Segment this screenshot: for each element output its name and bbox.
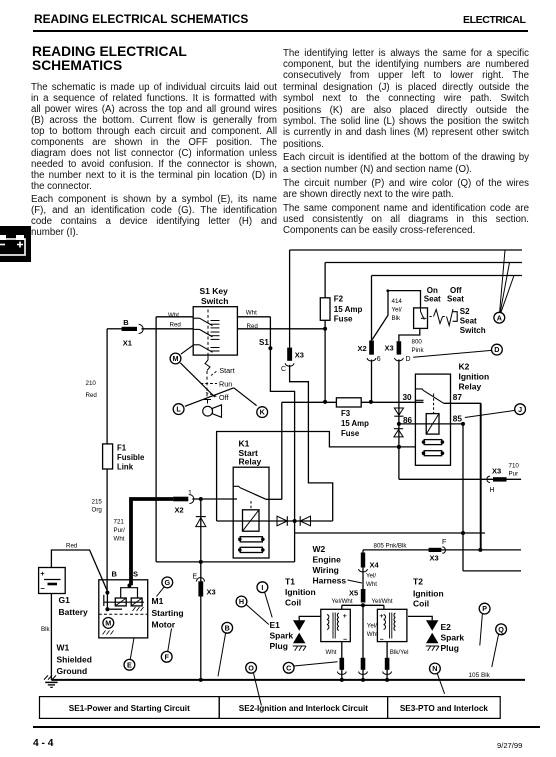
svg-text:Yel/Wht: Yel/Wht — [332, 598, 353, 605]
svg-text:M1: M1 — [152, 596, 164, 606]
svg-text:Link: Link — [117, 463, 134, 472]
svg-text:210: 210 — [86, 380, 97, 387]
svg-text:Switch: Switch — [201, 296, 228, 306]
svg-text:Wht: Wht — [168, 312, 179, 319]
svg-text:−: − — [343, 637, 347, 644]
svg-text:X3: X3 — [295, 351, 304, 360]
svg-text:Ground: Ground — [57, 666, 88, 676]
svg-text:S: S — [133, 570, 138, 579]
svg-text:Spark: Spark — [270, 631, 294, 641]
svg-text:F1: F1 — [117, 444, 127, 453]
svg-text:721: 721 — [114, 519, 125, 526]
svg-text:F2: F2 — [334, 295, 344, 304]
svg-text:Pur/: Pur/ — [114, 527, 126, 534]
svg-text:Seat: Seat — [447, 294, 464, 303]
svg-text:I: I — [261, 583, 263, 592]
svg-text:X2: X2 — [175, 506, 184, 515]
svg-text:E1: E1 — [270, 620, 281, 630]
svg-text:Wht: Wht — [326, 649, 337, 656]
svg-text:SE2-Ignition and Interlock Cir: SE2-Ignition and Interlock Circuit — [239, 704, 368, 713]
svg-text:Ignition: Ignition — [285, 587, 316, 597]
svg-text:F: F — [165, 652, 170, 661]
svg-text:F: F — [442, 539, 446, 546]
svg-text:W2: W2 — [313, 544, 326, 554]
svg-text:Blk: Blk — [41, 626, 51, 633]
svg-text:SE3-PTO and Interlock: SE3-PTO and Interlock — [400, 704, 489, 713]
svg-text:Red: Red — [170, 322, 182, 329]
svg-text:+: + — [343, 613, 347, 620]
svg-text:D: D — [494, 345, 499, 354]
svg-text:X3: X3 — [430, 554, 439, 563]
svg-text:X4: X4 — [370, 561, 380, 570]
svg-text:Harness: Harness — [313, 576, 347, 586]
svg-text:Plug: Plug — [270, 641, 288, 651]
svg-text:T2: T2 — [413, 577, 423, 587]
svg-text:Org: Org — [92, 507, 103, 514]
svg-text:K1: K1 — [239, 438, 250, 448]
svg-text:215: 215 — [92, 499, 103, 506]
svg-text:K2: K2 — [459, 362, 470, 372]
svg-text:Red: Red — [86, 392, 98, 399]
svg-text:Blk: Blk — [392, 315, 402, 322]
svg-text:−: − — [41, 584, 46, 593]
svg-text:G: G — [165, 578, 171, 587]
svg-text:A: A — [497, 313, 502, 322]
svg-text:M: M — [105, 619, 111, 628]
svg-text:T1: T1 — [285, 576, 295, 586]
svg-text:J: J — [518, 405, 522, 414]
svg-text:Plug: Plug — [441, 643, 459, 653]
svg-text:Engine: Engine — [313, 555, 342, 565]
svg-text:H: H — [239, 597, 244, 606]
svg-text:105 Blk: 105 Blk — [469, 672, 491, 679]
svg-text:Fuse: Fuse — [341, 429, 360, 438]
svg-text:Q: Q — [498, 625, 504, 634]
svg-text:Wht: Wht — [246, 309, 257, 316]
svg-text:30: 30 — [403, 393, 413, 402]
svg-text:Wiring: Wiring — [313, 565, 339, 575]
svg-text:E2: E2 — [441, 622, 452, 632]
svg-text:D: D — [406, 356, 411, 363]
svg-text:Yel/: Yel/ — [392, 307, 402, 314]
svg-text:K: K — [260, 408, 266, 417]
svg-text:Relay: Relay — [459, 382, 482, 392]
svg-text:G1: G1 — [59, 595, 71, 605]
svg-text:Pur: Pur — [509, 470, 519, 477]
svg-text:15 Amp: 15 Amp — [341, 419, 369, 428]
svg-text:SE1-Power and Starting Circuit: SE1-Power and Starting Circuit — [69, 704, 190, 713]
svg-text:X2: X2 — [358, 344, 367, 353]
svg-text:Yel/Wht: Yel/Wht — [372, 598, 393, 605]
svg-text:X3: X3 — [492, 466, 501, 475]
svg-text:E: E — [127, 660, 132, 669]
svg-text:Seat: Seat — [460, 316, 477, 325]
svg-text:X3: X3 — [385, 344, 394, 353]
svg-text:X5: X5 — [349, 588, 358, 597]
svg-text:Ignition: Ignition — [413, 588, 444, 598]
svg-text:H: H — [490, 487, 495, 494]
svg-text:Yel/: Yel/ — [366, 572, 376, 579]
svg-text:S2: S2 — [460, 307, 470, 316]
svg-text:Yel/: Yel/ — [367, 623, 377, 630]
svg-text:85: 85 — [453, 415, 463, 424]
svg-text:Coil: Coil — [413, 599, 429, 609]
svg-text:N: N — [432, 664, 437, 673]
svg-text:Wht: Wht — [114, 536, 125, 543]
svg-text:Relay: Relay — [239, 457, 262, 467]
svg-text:+: + — [379, 613, 383, 620]
svg-text:414: 414 — [392, 298, 403, 305]
svg-text:1: 1 — [188, 490, 192, 497]
svg-text:15 Amp: 15 Amp — [334, 305, 363, 314]
svg-text:X3: X3 — [207, 588, 216, 597]
svg-text:C: C — [281, 366, 286, 373]
svg-text:L: L — [176, 405, 181, 414]
svg-text:Fusible: Fusible — [117, 453, 145, 462]
svg-text:Ignition: Ignition — [459, 372, 490, 382]
svg-text:C: C — [286, 663, 291, 672]
svg-text:Seat: Seat — [424, 294, 441, 303]
svg-text:B: B — [123, 318, 129, 327]
svg-text:B: B — [225, 623, 230, 632]
svg-text:−: − — [380, 637, 384, 644]
svg-text:P: P — [482, 604, 487, 613]
svg-text:F3: F3 — [341, 409, 351, 418]
svg-text:Shielded: Shielded — [57, 654, 92, 664]
svg-text:Blk/Yel: Blk/Yel — [390, 649, 409, 656]
svg-text:B: B — [112, 570, 118, 579]
svg-text:Red: Red — [66, 543, 78, 550]
svg-text:710: 710 — [509, 462, 520, 469]
svg-text:800: 800 — [412, 339, 423, 346]
svg-text:Wht: Wht — [366, 581, 377, 588]
svg-text:Spark: Spark — [441, 633, 465, 643]
svg-text:6: 6 — [377, 356, 381, 363]
svg-text:S1: S1 — [259, 338, 269, 347]
svg-text:Wht: Wht — [367, 631, 378, 638]
svg-text:Starting: Starting — [152, 608, 184, 618]
svg-text:Pink: Pink — [412, 347, 425, 354]
svg-text:+: + — [40, 569, 45, 578]
svg-text:Start: Start — [219, 366, 234, 375]
svg-text:Coil: Coil — [285, 597, 301, 607]
svg-text:Fuse: Fuse — [334, 315, 353, 324]
svg-text:M: M — [173, 354, 179, 363]
svg-text:Switch: Switch — [460, 326, 486, 335]
svg-text:O: O — [248, 663, 254, 672]
svg-text:S1 Key: S1 Key — [200, 286, 229, 296]
svg-text:87: 87 — [453, 393, 463, 402]
svg-text:Motor: Motor — [152, 620, 176, 630]
svg-text:805 Pnk/Blk: 805 Pnk/Blk — [374, 543, 408, 550]
svg-text:X1: X1 — [123, 338, 132, 347]
svg-text:W1: W1 — [57, 643, 70, 653]
svg-text:Off: Off — [219, 393, 228, 402]
svg-text:Run: Run — [219, 379, 232, 388]
svg-text:Battery: Battery — [59, 607, 89, 617]
